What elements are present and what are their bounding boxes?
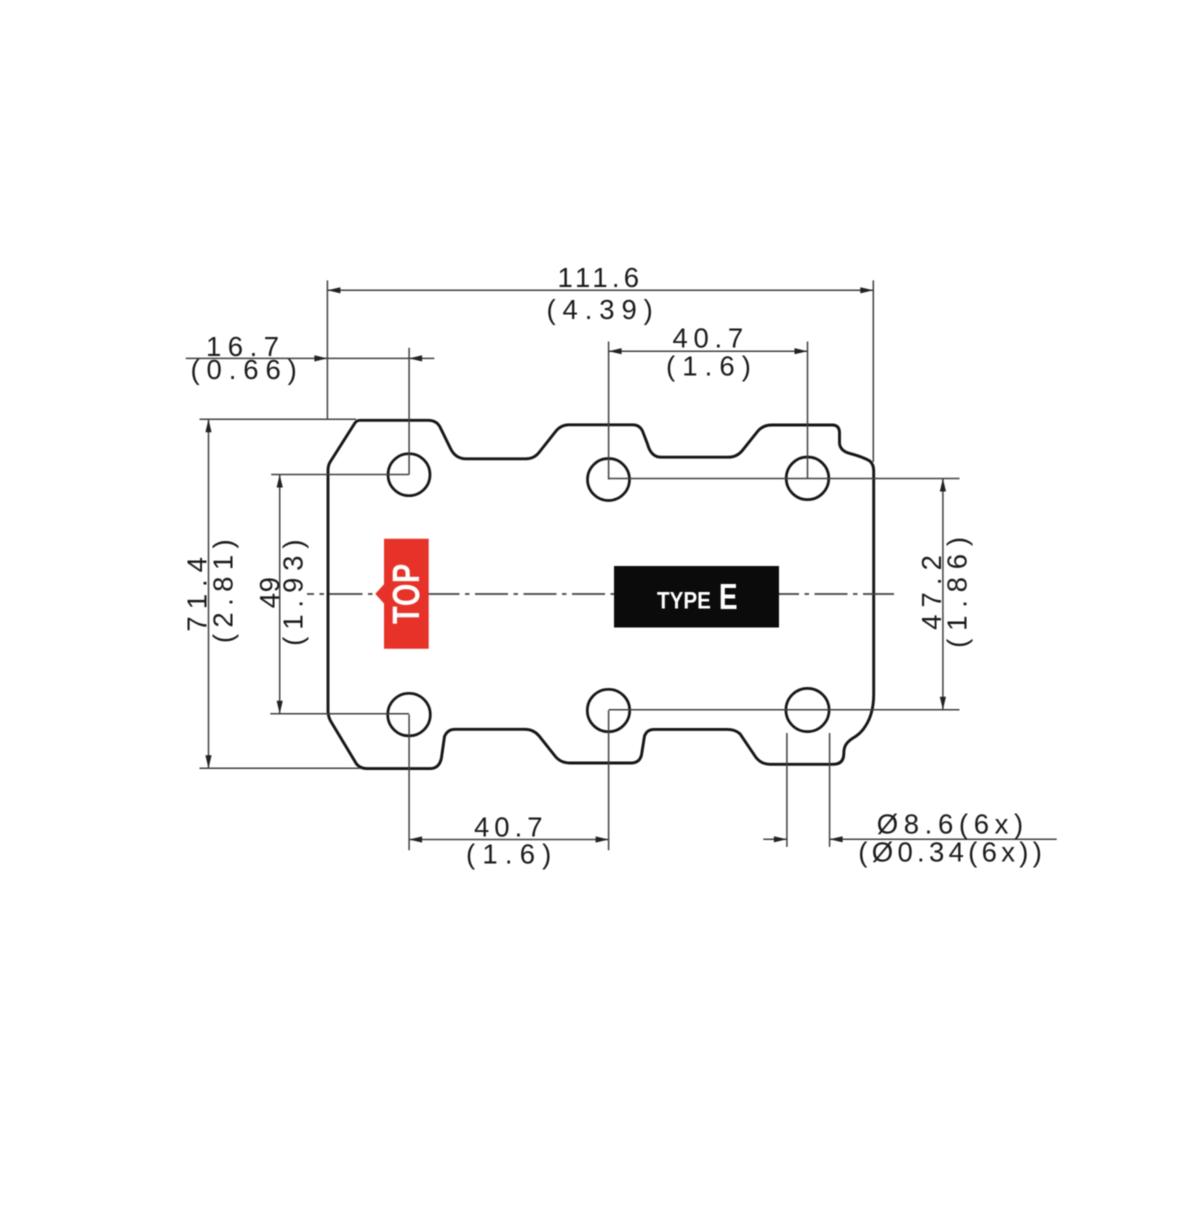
svg-text:(1.6): (1.6) — [466, 838, 559, 869]
svg-text:(Ø0.34(6x)): (Ø0.34(6x)) — [858, 837, 1046, 868]
svg-text:TYPE: TYPE — [657, 587, 711, 614]
hole bottom-middle — [587, 689, 629, 731]
svg-text:111.6: 111.6 — [558, 262, 644, 293]
extension line hole TL vertical — [408, 348, 410, 475]
dimension 40.7 top line — [609, 350, 808, 352]
dimension 47.2 line — [942, 479, 944, 710]
extension line hole TR horizontal — [609, 478, 960, 480]
extension line hole TR vertical — [807, 342, 809, 479]
hole top-right — [786, 457, 829, 500]
extension line hole BR right tangent — [829, 733, 831, 847]
svg-text:E: E — [719, 577, 738, 617]
svg-text:40.7: 40.7 — [673, 323, 749, 354]
hole bottom-right — [786, 688, 829, 731]
extension line hole TL horizontal — [271, 474, 409, 476]
svg-text:(4.39): (4.39) — [547, 294, 660, 325]
TOP flag (red) — [375, 539, 428, 649]
centerline — [307, 593, 894, 595]
extension line hole BL horizontal — [270, 713, 409, 715]
svg-text:(2.81): (2.81) — [207, 533, 238, 643]
svg-text:(0.66): (0.66) — [191, 354, 304, 385]
extension line left edge (width dim) — [326, 280, 328, 419]
hole top-middle — [588, 459, 630, 501]
dimension 49 line — [279, 475, 281, 714]
dimension 71.4 line — [208, 419, 210, 768]
extension line plate bottom horizontal — [200, 767, 361, 769]
plate outline — [328, 420, 874, 768]
svg-text:(1.6): (1.6) — [666, 350, 758, 381]
svg-text:TOP: TOP — [385, 563, 428, 624]
hole bottom-left — [388, 693, 431, 736]
svg-text:(1.93): (1.93) — [278, 533, 309, 646]
dimension 16.7 line — [186, 357, 434, 359]
dimension dia 8.6 leader lines — [763, 838, 787, 840]
hole top-left — [388, 454, 430, 496]
extension line plate top horizontal — [200, 418, 357, 420]
extension line hole BL vertical — [408, 715, 410, 851]
extension line right edge (width dim) — [872, 280, 874, 462]
extension line hole BR left tangent — [786, 733, 788, 847]
TYPE E box — [614, 566, 779, 628]
svg-text:Ø8.6(6x): Ø8.6(6x) — [877, 808, 1029, 839]
dimension 111.6 line — [327, 289, 873, 291]
svg-text:(1.86): (1.86) — [942, 529, 973, 648]
extension line hole BM vertical — [608, 711, 610, 851]
extension line hole TM vertical — [608, 342, 610, 480]
dimension 40.7 bottom line — [409, 839, 608, 841]
extension line hole BR horizontal — [609, 709, 960, 711]
